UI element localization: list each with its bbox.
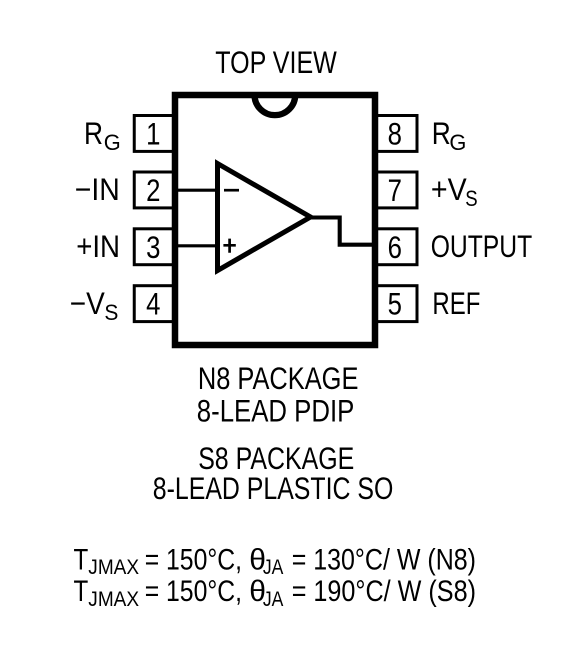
pin 6 box bbox=[375, 229, 417, 266]
svg-text:T: T bbox=[74, 574, 89, 608]
svg-text:−V: −V bbox=[70, 286, 105, 321]
op-amp plus input sign bbox=[223, 239, 235, 253]
pin 7 label +VS bbox=[431, 172, 478, 211]
svg-text:TOP VIEW: TOP VIEW bbox=[215, 45, 337, 80]
svg-text:8-LEAD PLASTIC SO: 8-LEAD PLASTIC SO bbox=[153, 471, 393, 506]
pin 4 label -VS bbox=[70, 286, 119, 325]
svg-text:6: 6 bbox=[388, 230, 402, 265]
svg-text:−IN: −IN bbox=[75, 172, 120, 207]
svg-text:G: G bbox=[104, 130, 121, 155]
svg-text:S: S bbox=[465, 186, 477, 211]
wire pin3 to op-amp non-inverting input bbox=[172, 244, 219, 247]
pin 1 box bbox=[134, 116, 174, 153]
pin 5 box bbox=[375, 286, 417, 322]
notch (pin-1 index) bbox=[254, 95, 295, 115]
svg-text:8-LEAD PDIP: 8-LEAD PDIP bbox=[197, 394, 354, 429]
thermal note line 1: TJMAX = 150C, thetaJA = 130C/W (N8) bbox=[74, 542, 477, 579]
svg-text:OUTPUT: OUTPUT bbox=[431, 229, 533, 264]
svg-text:+IN: +IN bbox=[76, 229, 120, 264]
pin 3 box bbox=[134, 229, 174, 266]
svg-text:5: 5 bbox=[388, 287, 402, 322]
svg-text:1: 1 bbox=[146, 117, 160, 152]
pin 8 box bbox=[375, 116, 417, 153]
svg-text:= 190°C/ W (S8): = 190°C/ W (S8) bbox=[292, 575, 476, 608]
pin 4 box bbox=[134, 286, 174, 322]
svg-text:REF: REF bbox=[432, 286, 480, 321]
svg-text:= 150°C,: = 150°C, bbox=[145, 575, 242, 608]
pin 8 label RG bbox=[432, 116, 467, 155]
op-amp A1 bbox=[218, 164, 311, 271]
wire op-amp output to pin 6 bbox=[311, 218, 377, 245]
svg-text:R: R bbox=[84, 116, 103, 151]
thermal note line 2: TJMAX = 150C, thetaJA = 190C/W (S8) bbox=[74, 574, 477, 611]
pin 2 box bbox=[134, 172, 174, 209]
svg-text:8: 8 bbox=[388, 117, 402, 152]
svg-text:T: T bbox=[74, 542, 89, 576]
svg-text:JMAX: JMAX bbox=[88, 556, 139, 579]
svg-text:S: S bbox=[104, 300, 118, 325]
svg-text:4: 4 bbox=[146, 287, 160, 322]
svg-text:2: 2 bbox=[146, 174, 160, 209]
svg-text:7: 7 bbox=[388, 174, 402, 209]
svg-text:JA: JA bbox=[263, 588, 284, 611]
wire pin2 to op-amp inverting input bbox=[172, 189, 219, 192]
svg-text:G: G bbox=[449, 130, 466, 155]
op-amp minus input sign bbox=[224, 189, 239, 192]
svg-text:3: 3 bbox=[146, 230, 160, 265]
svg-text:= 130°C/ W (N8): = 130°C/ W (N8) bbox=[292, 544, 476, 577]
svg-text:JMAX: JMAX bbox=[88, 588, 139, 611]
pin 7 box bbox=[375, 172, 417, 209]
svg-text:N8 PACKAGE: N8 PACKAGE bbox=[198, 361, 359, 396]
pin 1 label RG bbox=[84, 116, 121, 155]
svg-text:= 150°C,: = 150°C, bbox=[145, 544, 242, 577]
package body U1 bbox=[175, 95, 375, 345]
svg-text:R: R bbox=[432, 116, 451, 151]
svg-text:JA: JA bbox=[263, 556, 284, 579]
svg-text:+V: +V bbox=[431, 172, 467, 207]
